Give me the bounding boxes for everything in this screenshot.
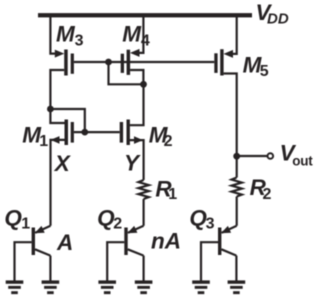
svg-text:4: 4: [141, 32, 150, 49]
wire M4 drain: [130, 70, 143, 84]
svg-text:2: 2: [113, 216, 122, 233]
svg-text:Y: Y: [124, 150, 141, 175]
wire R2 to Q3 emitter: [236, 197, 238, 226]
transistor M1: [51, 120, 74, 146]
Q1 label: [4, 206, 30, 233]
transistor M5: [214, 49, 233, 75]
wire gate M1 to gate M2: [74, 131, 120, 133]
resistor R1: [138, 180, 148, 199]
svg-text:1: 1: [168, 186, 177, 203]
svg-text:3: 3: [75, 32, 84, 49]
ground Q3 base: [192, 280, 210, 294]
wire mirror node to M2 drain: [130, 84, 144, 125]
node Y label: [124, 150, 141, 175]
ground Q3 collector: [228, 280, 246, 294]
junction gate M1-M2: [81, 129, 88, 136]
wire gate loop M1 M2: [50, 109, 84, 132]
nA label: [151, 229, 181, 254]
svg-text:2: 2: [164, 133, 173, 150]
wire M3 source to VDD: [50, 17, 57, 54]
M3 label: [56, 21, 84, 49]
wire M5 source to VDD: [229, 17, 237, 54]
svg-text:1: 1: [39, 133, 48, 150]
ground Q1 collector: [42, 280, 60, 294]
svg-text:M: M: [122, 21, 142, 46]
wire M5 drain to output node: [224, 74, 237, 157]
VDD rail: [38, 13, 252, 17]
Vout label: [280, 140, 314, 168]
ground Q2 base: [98, 280, 116, 294]
junction gate net: [105, 59, 112, 66]
svg-text:DD: DD: [267, 10, 289, 27]
svg-text:out: out: [292, 153, 313, 168]
R2 label: [250, 175, 272, 203]
svg-text:A: A: [56, 230, 73, 255]
ground Q2 collector: [135, 280, 153, 294]
svg-text:nA: nA: [151, 229, 181, 254]
terminal Vout: [268, 153, 274, 159]
transistor Q2: [107, 226, 143, 281]
wire output node to R2: [236, 156, 238, 177]
wire gate net M3-M4-M5: [74, 61, 214, 63]
wire R1 to Q2 emitter: [143, 199, 145, 226]
transistor M3: [55, 50, 74, 76]
svg-text:2: 2: [263, 186, 272, 203]
R1 label: [155, 176, 177, 203]
svg-text:X: X: [53, 151, 72, 176]
transistor M4: [121, 49, 140, 75]
ground Q1 base: [6, 280, 24, 294]
Q2 label: [97, 206, 122, 233]
svg-text:1: 1: [21, 216, 30, 233]
junction output node: [233, 153, 240, 160]
M1 label: [22, 123, 48, 150]
wire M1 source to X: [51, 140, 65, 226]
A label: [56, 230, 73, 255]
svg-text:Q: Q: [4, 206, 22, 231]
M4 label: [122, 21, 150, 49]
transistor Q3: [201, 226, 237, 281]
node VDD label: [256, 0, 289, 27]
M2 label: [149, 123, 173, 150]
svg-text:3: 3: [206, 216, 215, 233]
Q3 label: [189, 206, 214, 233]
wire M2 source to Y: [130, 140, 144, 180]
wire gate net to mirror node: [109, 62, 144, 84]
transistor Q1: [15, 226, 51, 281]
wire M3 drain to node X branch: [50, 70, 64, 123]
svg-text:5: 5: [260, 63, 269, 80]
transistor M2: [120, 120, 143, 146]
M5 label: [243, 52, 269, 80]
wire M4 source to VDD: [135, 17, 143, 53]
junction mirror node: [140, 81, 147, 88]
resistor R2: [232, 178, 242, 197]
svg-text:M: M: [56, 21, 76, 46]
junction M3 drain node: [47, 106, 54, 113]
wire output node to terminal: [237, 155, 268, 157]
node X label: [53, 151, 72, 176]
